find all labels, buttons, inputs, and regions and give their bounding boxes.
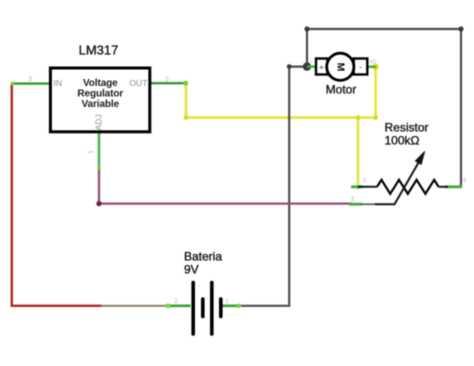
motor M1 right terminal [354,59,368,75]
node yellow junction [356,115,361,120]
node pad dot battery pin2 [166,303,171,308]
wire yellow OUT net [186,84,376,118]
battery BT1 plate short 2 [219,299,223,317]
svg-text:+: + [310,60,313,66]
svg-text:OUT: OUT [129,78,148,88]
wire green battery pad pin2 [166,304,191,307]
svg-text:M: M [334,63,346,72]
resistor R1 zigzag [377,180,439,194]
node corner dot battery-motor [287,64,292,69]
svg-text:2: 2 [351,197,354,203]
node pad dot battery pin1 [237,304,241,308]
wire gray top rail to resistor right [307,29,461,186]
node plum corner dot [96,201,101,206]
wire yellow motor minus drop [374,67,377,118]
wire green resistor right pad [445,185,462,188]
node corner dot top-left rail [304,26,309,31]
wire green pin2 OUT [151,82,186,84]
node junction motor plus [303,62,311,70]
svg-text:100kΩ: 100kΩ [385,133,420,147]
svg-text:-: - [359,62,362,72]
wire red IN to battery [12,84,101,306]
label Voltage Regulator Variable [77,78,123,110]
node yellow corner at OUT [184,115,189,120]
wire brown battery pin2 [101,305,168,307]
op-amp U1 LM317 box [50,68,149,132]
svg-text:Variable: Variable [82,99,120,110]
svg-text:Motor: Motor [326,83,357,97]
node yellow corner motor drop [373,115,378,120]
motor M1 body circle [327,53,354,80]
wire green pin3 IN [11,82,49,84]
svg-text:Bateria: Bateria [184,249,222,263]
wire green motor minus pad [366,66,376,68]
svg-text:+: + [319,62,324,72]
wire green resistor wiper pad [349,203,362,206]
node green dot resistor left [356,185,360,189]
motor M1 left terminal [316,59,328,75]
wire yellow branch to resistor left [357,118,360,184]
node pad pin3 [11,82,15,86]
wire gray battery pin1 to motor junction [240,67,307,306]
node pad pin2 [183,81,188,86]
svg-text:Regulator: Regulator [77,88,123,99]
svg-text:IN: IN [54,78,63,88]
resistor R1 lead right [439,186,448,188]
wire green battery pad pin1 [222,304,241,307]
svg-text:LM317: LM317 [79,43,119,58]
svg-text:Voltage: Voltage [83,78,118,89]
battery BT1 plate long 2 [210,283,214,335]
svg-text:2: 2 [463,178,466,184]
node yellow dot motor minus [372,64,378,70]
wire plum ADJ net [99,168,352,204]
battery BT1 plate long 1 [191,283,195,335]
resistor R1 wiper lead [361,203,376,205]
svg-text:9V: 9V [184,262,199,276]
wire green motor plus pad [307,65,316,67]
node corner dot top-right rail [458,26,463,31]
wire green pin1 ADJ [98,133,100,169]
wire green resistor left pad [351,185,363,188]
svg-text:ADJ: ADJ [94,114,104,130]
node pad ADJ [97,166,101,170]
resistor R1 lead left [358,186,377,188]
svg-text:1: 1 [363,178,366,184]
svg-text:M1: M1 [370,60,377,66]
battery BT1 plate short 1 [201,299,205,317]
resistor R1 wiper arrowhead [415,152,424,165]
